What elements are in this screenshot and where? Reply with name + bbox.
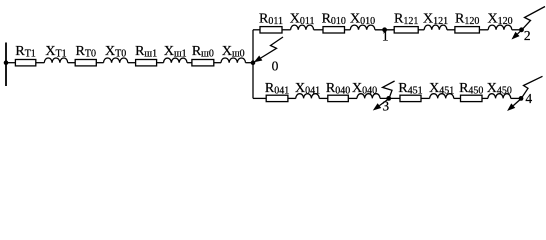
inductor X040 — [357, 94, 380, 99]
inductor X041 — [296, 94, 319, 99]
inductor X451 — [430, 94, 454, 99]
fault arrow to node 0 — [261, 37, 283, 58]
wire — [447, 29, 455, 31]
wire — [319, 97, 328, 99]
inductor XТ0 — [104, 58, 128, 63]
wire — [36, 62, 45, 64]
svg-text:4: 4 — [525, 91, 532, 106]
resistor R451 — [400, 95, 421, 101]
svg-text:1: 1 — [382, 29, 389, 44]
resistor RТ0 — [75, 60, 96, 66]
wire — [512, 29, 521, 31]
resistor R011 — [260, 27, 282, 33]
source bus — [5, 43, 7, 87]
inductor X010 — [350, 25, 375, 30]
inductor X121 — [424, 25, 447, 30]
wire — [282, 29, 291, 31]
inductor X120 — [488, 25, 512, 30]
resistor Rш1 — [136, 60, 157, 66]
svg-text:0: 0 — [272, 58, 279, 73]
wire — [511, 97, 521, 99]
wire — [380, 97, 400, 99]
svg-text:2: 2 — [524, 28, 531, 43]
node 3 fault point — [386, 96, 391, 101]
resistor Rш0 — [192, 60, 214, 66]
inductor Xш0 — [221, 58, 246, 63]
resistor RТ1 — [15, 60, 35, 66]
resistor R010 — [323, 27, 345, 33]
inductor Xш1 — [164, 58, 187, 63]
wire — [246, 62, 254, 64]
resistor R121 — [394, 27, 418, 33]
inductor X011 — [291, 25, 314, 30]
resistor R040 — [328, 95, 349, 101]
wire — [6, 62, 15, 64]
resistor R120 — [455, 27, 480, 33]
wire — [345, 29, 351, 31]
fault arrow to node 3 — [379, 81, 394, 106]
wire — [348, 97, 357, 99]
wire — [454, 97, 461, 99]
wire — [375, 29, 394, 31]
wire branch vertical — [252, 30, 254, 99]
resistor R450 — [461, 95, 483, 101]
wire — [479, 29, 488, 31]
fault arrow to node 4 — [513, 76, 542, 105]
inductor XТ1 — [44, 58, 67, 63]
inductor X450 — [488, 94, 511, 99]
wire — [214, 62, 221, 64]
wire — [421, 97, 430, 99]
fault arrow to node 2 — [518, 7, 546, 34]
wire — [253, 97, 266, 99]
wire — [157, 62, 164, 64]
node 4 fault point — [519, 96, 524, 101]
wire — [418, 29, 424, 31]
wire — [187, 62, 192, 64]
wire — [288, 97, 296, 99]
resistor R041 — [266, 95, 288, 101]
node 1 — [382, 27, 387, 32]
wire — [253, 29, 260, 31]
wire — [68, 62, 76, 64]
node 2 fault point — [519, 27, 524, 32]
wire — [314, 29, 323, 31]
node 0 junction — [251, 60, 256, 65]
node bus junction — [4, 60, 9, 65]
wire — [482, 97, 488, 99]
wire — [96, 62, 103, 64]
wire — [128, 62, 136, 64]
